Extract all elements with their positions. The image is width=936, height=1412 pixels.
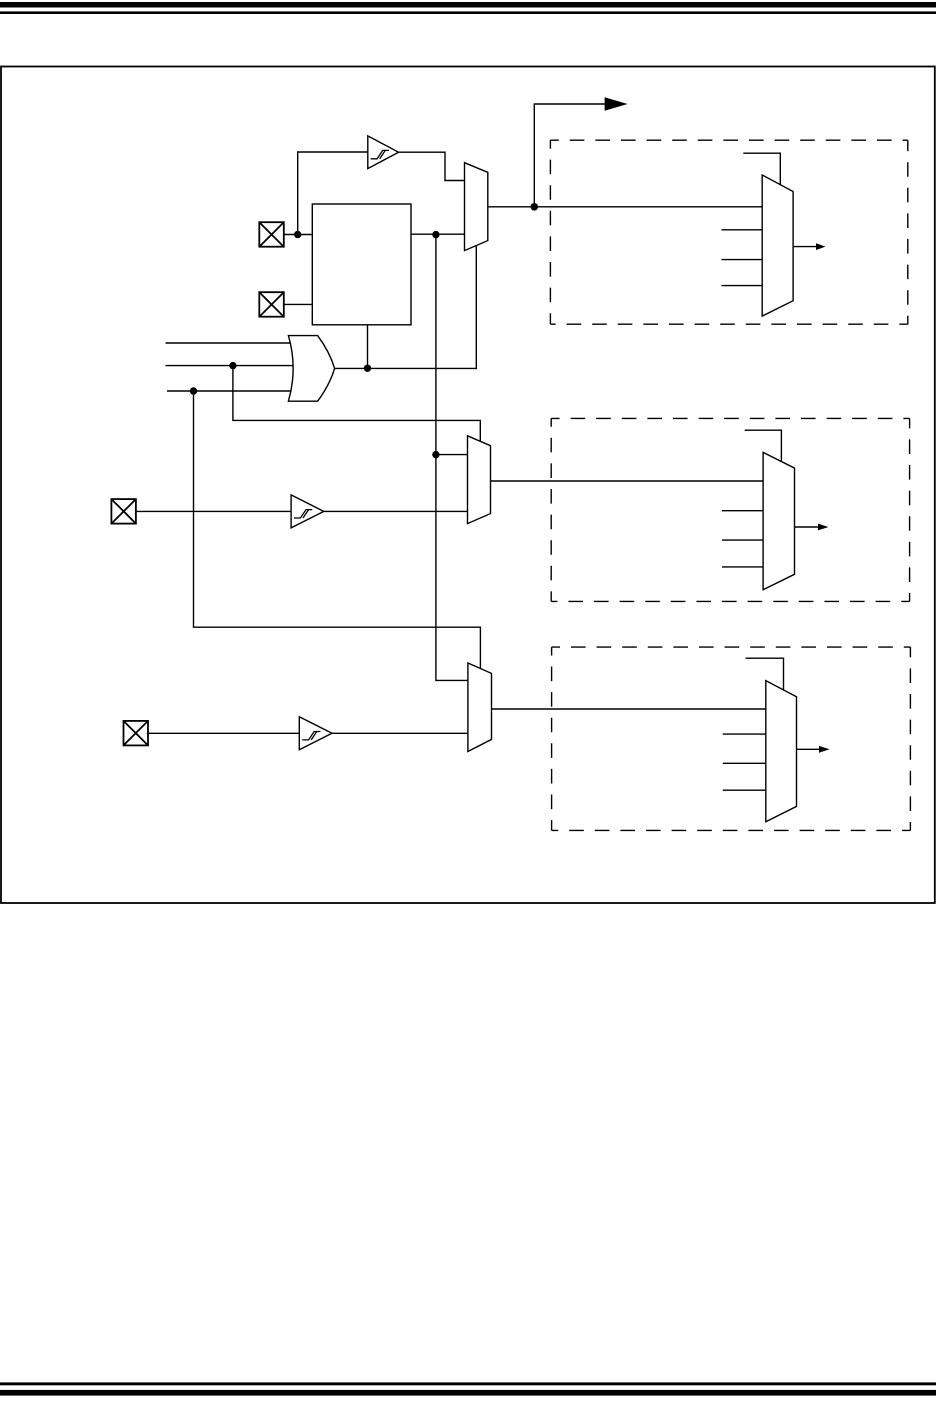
module 1 mux input stubs [722,230,763,286]
wire: node F down and over to mux M3 select [194,391,481,669]
module 1 dashed box [550,140,907,324]
wire: mux M3 output to module 3 mux input [492,708,766,710]
wire: Schmitt S3 output to mux M3 input 2 [332,732,468,734]
wire: mux M2 output to module 2 mux input [491,480,764,482]
module 3 mux output arrow [797,746,830,753]
page header rules [0,2,936,8]
module 2 dashed box [551,418,909,601]
node C junction [531,203,539,211]
wire: oscillator bottom to node D [367,325,369,368]
wire: OR input 2 [166,365,295,367]
oscillator block U1 [312,204,411,325]
wire: node E down and over to mux M2 select [233,366,480,442]
wire: EXTAL pad to Schmitt S2 input [136,510,291,512]
module 2 mux select stub [745,430,782,461]
mux M1 [465,163,488,251]
node E junction [229,362,236,369]
wire: Schmitt S2 output to mux M2 input 2 [324,510,468,512]
OR gate G1 [288,336,334,402]
wire: CLKIN pad to Schmitt S3 input [147,732,299,734]
node F junction [190,387,197,394]
module 3 mux input stubs [723,734,766,790]
pad X3 (EXTAL) [111,499,135,523]
wire: node C up to top output arrow [534,104,608,207]
node B junction [432,231,439,238]
module 1 mux output arrow [793,243,825,250]
wire: OR gate output to mux M1 select [335,246,477,369]
wire: long vertical from node B down to mux M3 input 1 [436,234,468,680]
wire: Schmitt S1 output to mux M1 input 1 [399,152,465,180]
wire: feedback from node A up to Schmitt S1 input [298,152,368,235]
mux M3 [468,663,492,752]
wire: OR input 1 [166,342,295,344]
node A junction [294,231,301,238]
module 3 mux select stub [746,658,784,690]
node D junction [364,365,371,372]
wire: XTAL1 pad to oscillator [284,234,313,236]
page footer rules [0,1382,936,1385]
pad X2 (XTAL2) [259,292,284,317]
module 2 mux U3 [763,452,794,589]
wire: mux M1 output to module 1 mux input [488,206,762,208]
Schmitt buffer S3 [299,717,332,750]
Schmitt buffer S2 [291,495,324,528]
pad X4 (CLKIN) [124,721,149,746]
module 2 mux input stubs [722,511,763,567]
wire: node G branch to mux M2 input 1 [436,454,468,456]
module 2 mux output arrow [795,524,829,531]
Schmitt buffer S1 [368,136,399,169]
module 3 mux U4 [766,681,797,822]
node G junction [432,451,439,458]
wire: OR input 3 [167,390,294,392]
figure frame [1,67,935,904]
pad X1 (XTAL1) [259,222,284,247]
wire: XTAL2 pad to oscillator [284,303,313,305]
module 1 mux U2 [762,175,793,316]
wire: oscillator output to mux M1 input 2 [411,233,465,235]
module 1 mux select stub [743,153,780,185]
module 3 dashed box [552,647,911,830]
mux M2 [468,436,491,524]
arrow: top output arrowhead [605,97,628,111]
